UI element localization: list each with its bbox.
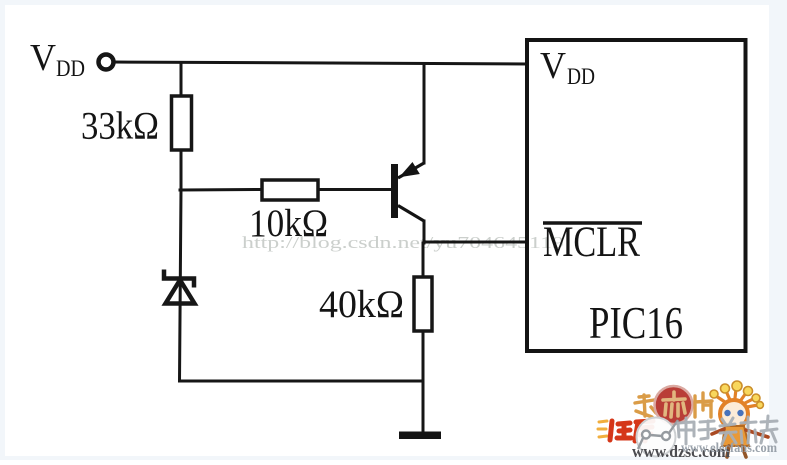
transistor Q1 emitter diagonal xyxy=(398,163,424,178)
mascot head xyxy=(720,400,748,428)
diode D1 zener xyxy=(164,270,195,304)
wire base right segment xyxy=(318,188,392,191)
wire collector to MCLR node xyxy=(423,221,426,243)
wire base left segment xyxy=(180,188,262,192)
logo chip traces xyxy=(638,420,678,449)
mascot arm right xyxy=(746,430,768,437)
logo speed ticks xyxy=(598,421,607,437)
svg-text:40kΩ: 40kΩ xyxy=(319,283,404,326)
resistor R3 40k body xyxy=(414,277,432,331)
svg-text:PIC16: PIC16 xyxy=(589,298,683,348)
mascot arm left xyxy=(712,429,724,434)
watermark text dian zi fa shao you xyxy=(678,416,777,444)
diode D1 triangle xyxy=(166,280,195,304)
svg-text:V: V xyxy=(540,45,567,87)
watermark elecfans logo group xyxy=(710,381,768,457)
logo char pian xyxy=(695,393,712,417)
svg-text:10kΩ: 10kΩ xyxy=(249,202,328,245)
logo char wo xyxy=(635,395,656,417)
mascot legs xyxy=(727,446,746,457)
wire 40k to ground xyxy=(422,331,425,432)
logo chip circle xyxy=(637,418,676,457)
svg-text:MCLR: MCLR xyxy=(543,219,640,266)
node VDD terminal xyxy=(99,55,114,70)
wire top rail VDD xyxy=(114,62,527,64)
mascot body xyxy=(722,426,749,446)
page border strips xyxy=(0,0,787,5)
ground xyxy=(399,432,441,440)
resistor R1 33k body xyxy=(172,96,192,150)
transistor Q1 collector diagonal xyxy=(398,206,424,222)
transistor Q1 emitter arrow xyxy=(401,163,420,177)
mascot bulbs xyxy=(710,381,763,408)
diode D1 cathode bar with zener ticks xyxy=(164,270,194,288)
logo red circle xyxy=(655,386,693,424)
mascot crown spikes xyxy=(716,389,758,407)
wire MCLR horizontal xyxy=(424,241,527,244)
logo char xin xyxy=(663,392,685,417)
svg-text:DD: DD xyxy=(56,56,85,81)
wire below 33k xyxy=(180,150,183,190)
svg-text:DD: DD xyxy=(567,64,595,89)
transistor Q1 base bar xyxy=(391,164,398,218)
label MCLR overline xyxy=(543,221,642,225)
svg-text:33kΩ: 33kΩ xyxy=(81,105,159,148)
IC U1 PIC16 box xyxy=(527,40,746,351)
logo char wei red xyxy=(610,421,631,440)
mascot eyes xyxy=(724,410,730,416)
transistor Q1 PNP xyxy=(395,163,425,221)
wire 33k branch from rail xyxy=(180,63,183,96)
logo char ku red xyxy=(635,421,653,441)
watermark dzsc logo group xyxy=(598,386,712,457)
resistor R2 10k body xyxy=(262,180,318,200)
wire emitter vertical from rail xyxy=(423,64,426,163)
wire left vertical through zener xyxy=(180,190,182,381)
svg-text:V: V xyxy=(30,37,57,79)
svg-text:www.elecfans.com: www.elecfans.com xyxy=(681,440,778,455)
wire node to 40k xyxy=(422,243,425,277)
wire bottom rail xyxy=(180,380,424,383)
